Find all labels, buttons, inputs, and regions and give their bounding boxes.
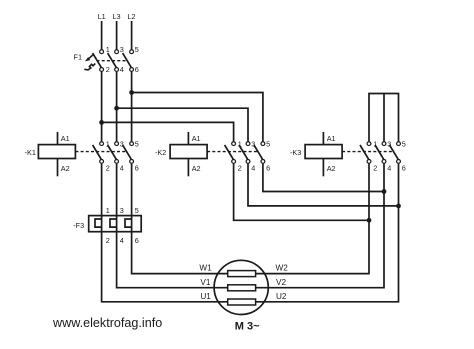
K1 pole 2 contact pin 4 bbox=[115, 160, 119, 164]
svg-text:W2: W2 bbox=[276, 264, 289, 273]
contactor K2 coil bbox=[170, 145, 207, 159]
svg-text:U1: U1 bbox=[200, 292, 211, 301]
wire star-point bridge middle drop to K3 pin 3 bbox=[383, 94, 385, 142]
wire K2 pin 6 to delta node with K3 pin 4 bbox=[263, 164, 384, 192]
wire branch L2 phase to K2 contact pin 5 bbox=[132, 93, 263, 142]
wire L2 to F1 pin 5 bbox=[131, 21, 133, 50]
K1 pole 1 contact pin 2 bbox=[100, 160, 104, 164]
svg-text:A2: A2 bbox=[192, 164, 201, 173]
svg-text:5: 5 bbox=[135, 139, 139, 148]
svg-text:5: 5 bbox=[135, 45, 139, 54]
K3 pole 1 blade bbox=[360, 145, 369, 159]
K3 pole 1 contact pin 1 bbox=[367, 142, 371, 146]
svg-text:3: 3 bbox=[120, 206, 124, 215]
svg-text:M 3~: M 3~ bbox=[235, 321, 260, 333]
K3 pole 1 contact pin 2 bbox=[367, 160, 371, 164]
svg-text:-K2: -K2 bbox=[155, 148, 166, 157]
svg-text:F1: F1 bbox=[74, 53, 83, 62]
svg-text:3: 3 bbox=[120, 45, 124, 54]
K3 pole 3 blade bbox=[390, 145, 399, 159]
K1 pole 2 blade bbox=[108, 145, 117, 159]
breaker F1 actuator dashed link bbox=[97, 60, 128, 62]
svg-text:A1: A1 bbox=[327, 134, 336, 143]
svg-text:6: 6 bbox=[135, 236, 139, 245]
svg-text:5: 5 bbox=[402, 139, 406, 148]
K2 pole 3 contact pin 5 bbox=[261, 142, 265, 146]
svg-text:6: 6 bbox=[402, 164, 406, 173]
K1 pole 3 contact pin 5 bbox=[130, 142, 134, 146]
svg-text:U2: U2 bbox=[276, 292, 287, 301]
wire K1 pin 6 down through F3 to node W1 row corner bbox=[132, 164, 228, 274]
svg-text:4: 4 bbox=[120, 65, 124, 74]
contactor K3 actuator dashed link bbox=[342, 151, 394, 153]
contactor K3 coil terminal A2 lead bbox=[322, 159, 324, 177]
contactor K1 actuator dashed link bbox=[75, 151, 127, 153]
wire K2 pin 2 to delta node with K3 pin 2 bbox=[234, 164, 369, 221]
contactor K3 coil terminal A1 lead bbox=[322, 132, 324, 145]
F1 pole 1 contact pin 1 bbox=[100, 50, 104, 54]
F1 pole 3 contact pin 5 bbox=[130, 50, 134, 54]
svg-text:L3: L3 bbox=[113, 12, 121, 21]
wire K3 pin 2 down to delta node bbox=[368, 164, 370, 221]
K3 pole 2 contact pin 3 bbox=[382, 142, 386, 146]
K1 pole 3 blade bbox=[123, 145, 132, 159]
svg-text:4: 4 bbox=[120, 164, 124, 173]
F3 heater element pole 1 bbox=[95, 219, 102, 227]
svg-text:4: 4 bbox=[120, 236, 124, 245]
wire F1 pin 6 down to K1 contact pin 5 bbox=[131, 72, 133, 142]
K2 pole 3 blade bbox=[254, 145, 263, 159]
F1 pole 1 blade bbox=[93, 53, 102, 67]
svg-text:6: 6 bbox=[135, 164, 139, 173]
K3 pole 2 contact pin 4 bbox=[382, 160, 386, 164]
contactor K1 coil terminal A2 lead bbox=[57, 159, 59, 177]
svg-text:-K3: -K3 bbox=[290, 148, 301, 157]
svg-text:A2: A2 bbox=[61, 164, 70, 173]
K1 pole 2 contact pin 3 bbox=[115, 142, 119, 146]
wire delta node down to motor terminal U2 bbox=[256, 206, 399, 302]
K1 pole 1 contact pin 1 bbox=[100, 142, 104, 146]
wire star-point bridge above K3 contacts bbox=[369, 94, 399, 142]
contactor K1 coil terminal A1 lead bbox=[57, 132, 59, 145]
contactor K1 coil bbox=[38, 145, 75, 159]
K2 pole 1 blade bbox=[225, 145, 234, 159]
svg-text:2: 2 bbox=[106, 236, 110, 245]
svg-text:1: 1 bbox=[106, 206, 110, 215]
wire L1 to F1 pin 1 bbox=[101, 21, 103, 50]
svg-text:6: 6 bbox=[135, 65, 139, 74]
motor winding U1-U2 bbox=[228, 299, 256, 305]
svg-text:2: 2 bbox=[238, 164, 242, 173]
K3 pole 2 blade bbox=[375, 145, 384, 159]
F1 pole 2 contact pin 3 bbox=[115, 50, 119, 54]
wire K1 pin 2 down through F3 to node W1 corner bbox=[102, 164, 228, 302]
K2 pole 3 contact pin 6 bbox=[261, 160, 265, 164]
svg-text:4: 4 bbox=[251, 164, 255, 173]
svg-text:2: 2 bbox=[106, 164, 110, 173]
breaker F1 thermal release symbol bbox=[84, 64, 95, 70]
F1 pole 3 blade bbox=[123, 53, 132, 67]
svg-text:W1: W1 bbox=[199, 264, 212, 273]
svg-text:A2: A2 bbox=[327, 164, 336, 173]
junction node phase L2 branch bbox=[129, 90, 134, 95]
svg-text:V1: V1 bbox=[200, 278, 210, 287]
junction node V2 delta point bbox=[382, 189, 387, 194]
motor winding V1-V2 bbox=[228, 285, 256, 291]
F3 heater element pole 2 bbox=[110, 219, 117, 227]
svg-text:5: 5 bbox=[266, 139, 270, 148]
F1 pole 1 contact pin 2 bbox=[100, 68, 104, 72]
K2 pole 2 contact pin 4 bbox=[246, 160, 250, 164]
F1 pole 2 contact pin 4 bbox=[115, 68, 119, 72]
svg-text:-F3: -F3 bbox=[73, 221, 84, 230]
wire K3 pin 4 down to delta node bbox=[383, 164, 385, 192]
junction node U2 delta point bbox=[396, 204, 401, 209]
svg-text:L1: L1 bbox=[98, 12, 106, 21]
svg-text:5: 5 bbox=[135, 206, 139, 215]
K3 pole 3 contact pin 6 bbox=[397, 160, 401, 164]
K3 pole 3 contact pin 5 bbox=[397, 142, 401, 146]
svg-text:A1: A1 bbox=[192, 134, 201, 143]
K2 pole 2 blade bbox=[239, 145, 248, 159]
K2 pole 2 contact pin 3 bbox=[246, 142, 250, 146]
wire L3 to F1 pin 3 bbox=[116, 21, 118, 50]
svg-text:www.elektrofag.info: www.elektrofag.info bbox=[52, 316, 162, 330]
F1 pole 3 contact pin 6 bbox=[130, 68, 134, 72]
wire branch L3 phase to K2 contact pin 3 bbox=[117, 108, 248, 141]
contactor K2 actuator dashed link bbox=[207, 151, 259, 153]
wire K2 pin 4 to delta node with K3 pin 6 bbox=[248, 164, 399, 206]
wire branch L1 phase to K2 contact pin 1 bbox=[102, 122, 234, 141]
K2 pole 1 contact pin 2 bbox=[232, 160, 236, 164]
wire delta node down to motor terminal W2 bbox=[256, 220, 369, 273]
svg-text:6: 6 bbox=[266, 164, 270, 173]
svg-text:2: 2 bbox=[106, 65, 110, 74]
contactor K2 coil terminal A1 lead bbox=[187, 132, 189, 145]
contactor K2 coil terminal A2 lead bbox=[187, 159, 189, 177]
svg-text:2: 2 bbox=[373, 164, 377, 173]
wire K3 pin 6 down to delta node bbox=[398, 164, 400, 206]
wire F1 pin 4 down to K1 contact pin 3 bbox=[116, 72, 118, 142]
wire F1 pin 2 down to K1 contact pin 1 bbox=[101, 72, 103, 142]
junction node phase L3 branch bbox=[114, 106, 119, 111]
svg-text:1: 1 bbox=[106, 45, 110, 54]
F3 heater element pole 3 bbox=[125, 219, 132, 227]
F1 pole 2 blade bbox=[108, 53, 117, 67]
K1 pole 3 contact pin 6 bbox=[130, 160, 134, 164]
svg-text:L2: L2 bbox=[127, 12, 135, 21]
contactor K3 coil bbox=[305, 145, 342, 159]
overload relay F3 body bbox=[89, 216, 142, 232]
breaker F1 trip arrow bbox=[85, 54, 94, 61]
junction node W2 delta point bbox=[367, 218, 372, 223]
motor winding W1-W2 bbox=[228, 271, 256, 277]
K1 pole 1 blade bbox=[93, 145, 102, 159]
junction node phase L1 branch bbox=[99, 120, 104, 125]
motor M1 body circle bbox=[214, 260, 268, 314]
K2 pole 1 contact pin 1 bbox=[232, 142, 236, 146]
wire delta node down to motor terminal V2 bbox=[256, 192, 384, 288]
svg-text:V2: V2 bbox=[276, 278, 286, 287]
svg-text:A1: A1 bbox=[61, 134, 70, 143]
wire K1 pin 4 down through F3 to node V1 corner bbox=[117, 164, 228, 288]
svg-text:-K1: -K1 bbox=[25, 148, 36, 157]
svg-text:4: 4 bbox=[387, 164, 391, 173]
